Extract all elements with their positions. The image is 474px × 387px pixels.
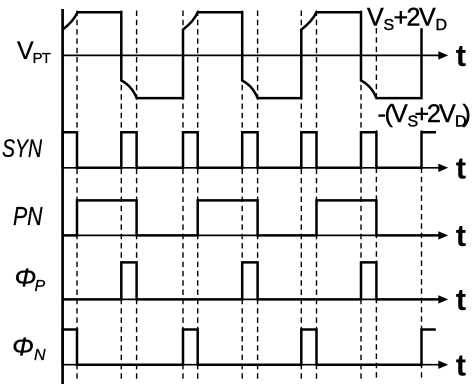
- svg-text:V: V: [391, 100, 408, 128]
- svg-text:D: D: [436, 17, 448, 34]
- svg-text:V: V: [17, 37, 34, 65]
- svg-text:PN: PN: [13, 201, 43, 231]
- svg-text:t: t: [456, 348, 466, 383]
- svg-text:Φ: Φ: [15, 263, 37, 293]
- svg-text:V: V: [419, 4, 436, 32]
- svg-text:): ): [463, 100, 471, 128]
- svg-text:SYN: SYN: [2, 135, 43, 163]
- svg-text:t: t: [456, 151, 466, 186]
- svg-text:t: t: [456, 282, 466, 317]
- svg-text:Φ: Φ: [12, 332, 34, 362]
- svg-text:t: t: [456, 38, 466, 73]
- svg-text:V: V: [367, 4, 384, 32]
- svg-text:N: N: [34, 347, 46, 364]
- svg-text:PT: PT: [33, 50, 51, 67]
- svg-text:t: t: [456, 218, 466, 253]
- svg-text:P: P: [35, 278, 46, 295]
- svg-text:V: V: [439, 100, 456, 128]
